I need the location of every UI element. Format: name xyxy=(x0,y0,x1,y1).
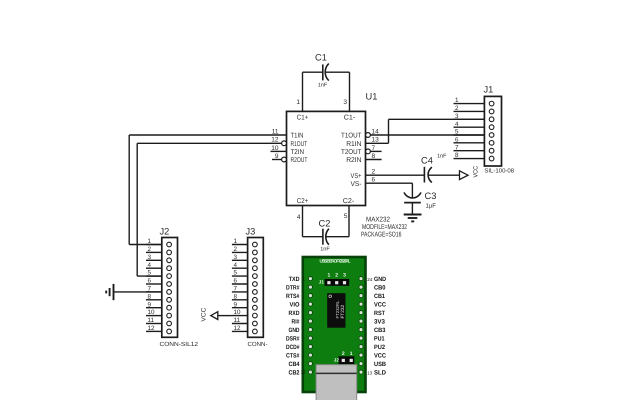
svg-text:TXD: TXD xyxy=(289,276,300,283)
svg-text:3V3: 3V3 xyxy=(374,319,386,326)
svg-text:9: 9 xyxy=(148,301,152,308)
svg-text:C2-: C2- xyxy=(343,198,355,205)
svg-text:CTS#: CTS# xyxy=(286,353,300,360)
svg-text:RI#: RI# xyxy=(292,319,300,326)
svg-text:CONN-: CONN- xyxy=(248,341,268,348)
svg-text:J3: J3 xyxy=(246,227,256,237)
svg-text:C3: C3 xyxy=(425,191,437,201)
svg-text:C2: C2 xyxy=(319,219,331,229)
svg-text:T1IN: T1IN xyxy=(291,133,304,140)
svg-text:FT232RL: FT232RL xyxy=(335,300,340,319)
svg-text:RXD: RXD xyxy=(289,310,300,317)
svg-text:RTS#: RTS# xyxy=(286,293,300,300)
svg-text:1nF: 1nF xyxy=(318,83,328,89)
svg-text:SLD: SLD xyxy=(374,370,387,377)
svg-text:PU2: PU2 xyxy=(374,344,386,351)
svg-text:J1: J1 xyxy=(484,85,494,95)
svg-text:1: 1 xyxy=(296,99,300,106)
svg-text:11: 11 xyxy=(148,317,155,324)
svg-text:C1: C1 xyxy=(315,53,327,63)
svg-text:MAX232: MAX232 xyxy=(366,217,390,224)
svg-text:USB2SER O FT232 2RL: USB2SER O FT232 2RL xyxy=(320,259,351,264)
svg-text:7: 7 xyxy=(234,286,238,293)
svg-text:2: 2 xyxy=(455,105,459,112)
svg-text:24: 24 xyxy=(367,277,372,282)
svg-text:1: 1 xyxy=(328,272,331,278)
svg-text:1nF: 1nF xyxy=(437,154,447,160)
svg-text:C1+: C1+ xyxy=(297,115,309,122)
svg-text:DTR#: DTR# xyxy=(286,285,300,292)
svg-text:CONN-SIL12: CONN-SIL12 xyxy=(160,341,199,348)
svg-text:5: 5 xyxy=(455,129,459,136)
svg-text:J1: J1 xyxy=(319,279,325,284)
svg-text:CB3: CB3 xyxy=(374,327,386,334)
svg-text:SIL-100-08: SIL-100-08 xyxy=(484,167,514,174)
svg-text:CB4: CB4 xyxy=(289,361,300,368)
svg-text:11: 11 xyxy=(234,317,241,324)
svg-text:VS-: VS- xyxy=(351,181,363,188)
svg-text:4: 4 xyxy=(297,214,301,221)
svg-text:USB: USB xyxy=(374,361,386,368)
svg-text:VCC: VCC xyxy=(374,353,386,360)
svg-text:VS+: VS+ xyxy=(351,173,362,180)
svg-text:3: 3 xyxy=(234,254,238,261)
svg-text:6: 6 xyxy=(455,136,459,143)
svg-text:C2+: C2+ xyxy=(297,198,309,205)
svg-text:VCC: VCC xyxy=(374,302,386,309)
svg-text:T2IN: T2IN xyxy=(291,149,305,156)
svg-text:4: 4 xyxy=(455,121,459,128)
svg-text:3: 3 xyxy=(455,113,459,120)
svg-text:7: 7 xyxy=(455,144,459,151)
svg-text:FT232: FT232 xyxy=(340,305,345,319)
svg-text:R2OUT: R2OUT xyxy=(291,157,309,164)
svg-text:1: 1 xyxy=(350,351,353,357)
svg-text:1µF: 1µF xyxy=(426,203,437,210)
svg-text:DSR#: DSR# xyxy=(286,336,300,343)
svg-text:VIO: VIO xyxy=(290,302,300,309)
svg-text:4: 4 xyxy=(234,262,238,269)
svg-text:12: 12 xyxy=(301,370,306,375)
svg-text:1: 1 xyxy=(455,97,459,104)
svg-text:6: 6 xyxy=(234,278,238,285)
svg-text:8: 8 xyxy=(148,293,152,300)
svg-text:6: 6 xyxy=(148,278,152,285)
svg-text:CB2: CB2 xyxy=(289,370,300,377)
svg-text:10: 10 xyxy=(234,309,242,316)
svg-text:T1OUT: T1OUT xyxy=(341,133,362,140)
svg-text:R2IN: R2IN xyxy=(346,157,361,164)
svg-text:2: 2 xyxy=(234,246,238,253)
svg-text:J2: J2 xyxy=(334,357,340,362)
svg-text:RST: RST xyxy=(374,310,385,317)
svg-text:2: 2 xyxy=(342,351,345,357)
svg-text:10: 10 xyxy=(148,309,156,316)
svg-text:12: 12 xyxy=(148,325,156,332)
svg-text:MODFILE=MAX232: MODFILE=MAX232 xyxy=(362,224,407,231)
svg-text:R1IN: R1IN xyxy=(346,141,361,148)
svg-text:3: 3 xyxy=(148,254,152,261)
svg-text:2: 2 xyxy=(148,246,152,253)
svg-text:4: 4 xyxy=(148,262,152,269)
svg-text:J2: J2 xyxy=(160,227,170,237)
svg-text:PACKAGE=SO16: PACKAGE=SO16 xyxy=(361,231,402,238)
svg-text:8: 8 xyxy=(455,152,459,159)
svg-text:1: 1 xyxy=(148,238,152,245)
svg-text:5: 5 xyxy=(148,270,152,277)
svg-text:PU1: PU1 xyxy=(374,336,385,343)
svg-text:U1: U1 xyxy=(366,92,378,102)
svg-text:VCC: VCC xyxy=(201,307,208,321)
svg-text:1nF: 1nF xyxy=(320,247,330,253)
svg-text:GND: GND xyxy=(289,327,300,334)
svg-text:C1-: C1- xyxy=(344,115,356,122)
svg-text:13: 13 xyxy=(367,370,372,375)
svg-text:5: 5 xyxy=(344,213,348,220)
svg-text:9: 9 xyxy=(234,301,238,308)
svg-text:5: 5 xyxy=(234,270,238,277)
svg-text:C4: C4 xyxy=(421,156,433,166)
svg-text:CB0: CB0 xyxy=(374,285,386,292)
svg-text:1: 1 xyxy=(234,238,238,245)
svg-text:CB1: CB1 xyxy=(374,293,385,300)
svg-text:DCD#: DCD# xyxy=(286,344,300,351)
svg-text:2: 2 xyxy=(335,272,338,278)
svg-text:T2OUT: T2OUT xyxy=(341,149,362,156)
svg-text:VCC: VCC xyxy=(473,166,480,178)
svg-text:GND: GND xyxy=(374,276,386,283)
svg-text:3: 3 xyxy=(343,99,347,106)
svg-text:12: 12 xyxy=(234,325,242,332)
svg-text:8: 8 xyxy=(234,293,238,300)
svg-text:3: 3 xyxy=(343,272,346,278)
svg-text:R1OUT: R1OUT xyxy=(291,141,308,148)
